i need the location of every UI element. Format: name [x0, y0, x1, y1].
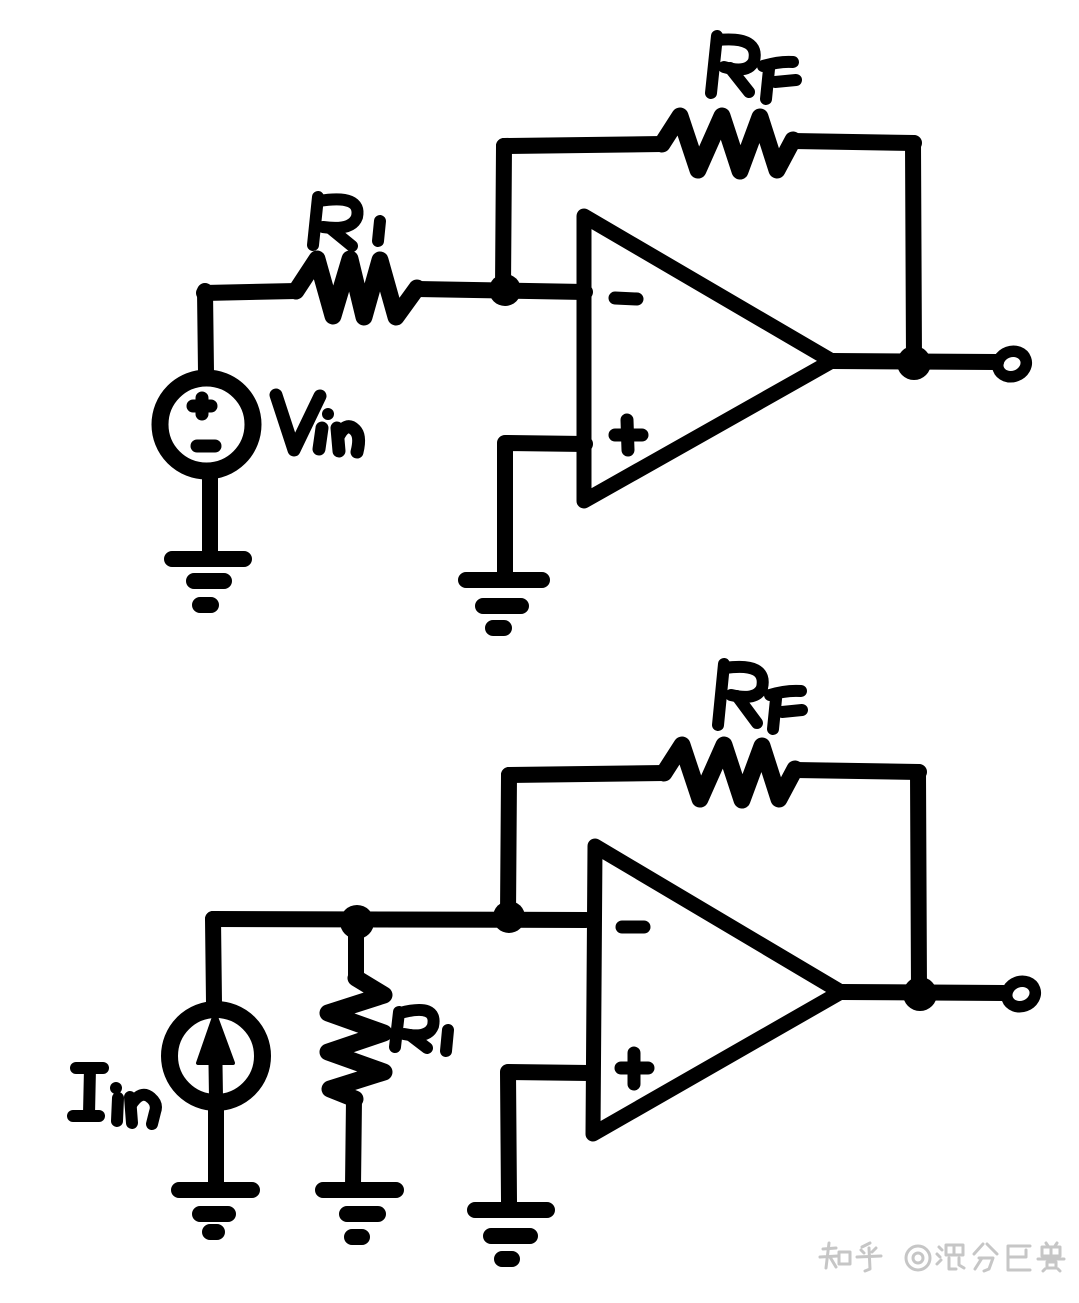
- watermark: 知乎 @混分巨兽: [820, 1243, 1064, 1271]
- ground (op-amp + input): [466, 580, 542, 628]
- minus sign inside Vin: [197, 440, 215, 453]
- op-amp U1 triangle: [584, 216, 832, 501]
- voltage source Vin circle: [160, 378, 253, 471]
- wire: op-amp output (bottom): [841, 992, 1003, 993]
- wire: stub from node to resistor R1 (bottom): [348, 932, 364, 978]
- resistor R1 (bottom, vertical zigzag): [328, 978, 384, 1099]
- wire: op-amp output: [832, 361, 996, 362]
- ground (below current source): [179, 1190, 252, 1232]
- wire: feedback top horizontal left: [504, 144, 662, 146]
- wire: input horizontal from source corner to resistor R1: [204, 291, 296, 293]
- resistor R1 (series input resistor, zigzag): [296, 259, 417, 317]
- junction dot at op-amp output: [897, 346, 931, 380]
- arrow inside current source (shaft): [215, 1030, 216, 1098]
- wire: below Vin to ground: [202, 477, 218, 551]
- op-amp U2 triangle: [593, 846, 841, 1134]
- ground (below Vin): [172, 559, 244, 605]
- resistor RF (feedback, zigzag): [662, 116, 793, 171]
- op-amp plus sign (non-inverting input): [615, 420, 642, 450]
- ground (below R1): [323, 1190, 396, 1237]
- op-amp minus sign (bottom): [622, 921, 644, 934]
- node dot at inverting input (bottom): [493, 901, 525, 933]
- wire: feedback right vertical (bottom): [918, 772, 919, 991]
- wire: feedback top horizontal right (bottom): [795, 770, 919, 772]
- wire: current source top vertical: [213, 919, 214, 1003]
- wire: non-inverting input to ground: [505, 443, 585, 572]
- resistor RF (bottom feedback, zigzag): [664, 745, 795, 800]
- wire: feedback top horizontal left (bottom): [509, 773, 664, 775]
- wire: source Vin top vertical: [205, 291, 206, 372]
- ground (bottom op-amp + input): [475, 1210, 547, 1259]
- open output terminal loop: [994, 347, 1030, 380]
- wire: resistor R1 to op-amp inverting input: [417, 289, 585, 292]
- arrow head: [198, 1014, 233, 1063]
- open output terminal loop (bottom): [1003, 977, 1039, 1010]
- label R1 (top): [313, 197, 380, 246]
- wire: feedback right vertical down to output: [913, 143, 914, 360]
- wire: feedback top horizontal right: [793, 141, 914, 143]
- label Vin: [276, 395, 359, 452]
- op-amp minus sign (inverting input): [615, 298, 637, 299]
- node dot over resistor R1 (bottom): [340, 905, 374, 939]
- wire: below current source to ground: [208, 1108, 224, 1182]
- wire: below resistor R1 to ground: [353, 1099, 354, 1186]
- label RF (top): [711, 36, 796, 99]
- junction dot at output (bottom): [903, 977, 937, 1011]
- wire: non-inverting input to ground (bottom): [508, 1072, 589, 1202]
- op-amp plus sign (bottom): [621, 1053, 648, 1084]
- wire: input horizontal bus: [213, 919, 586, 920]
- wire: feedback left vertical (bottom): [508, 775, 509, 915]
- wire: feedback left vertical: [503, 146, 504, 288]
- plus sign inside Vin: [193, 398, 211, 414]
- node A junction dot (inverting input node): [489, 274, 521, 306]
- label Iin: [73, 1068, 156, 1124]
- label RF (bottom): [718, 664, 802, 729]
- current source Iin circle: [170, 1010, 263, 1103]
- label R1 (bottom): [395, 1010, 448, 1051]
